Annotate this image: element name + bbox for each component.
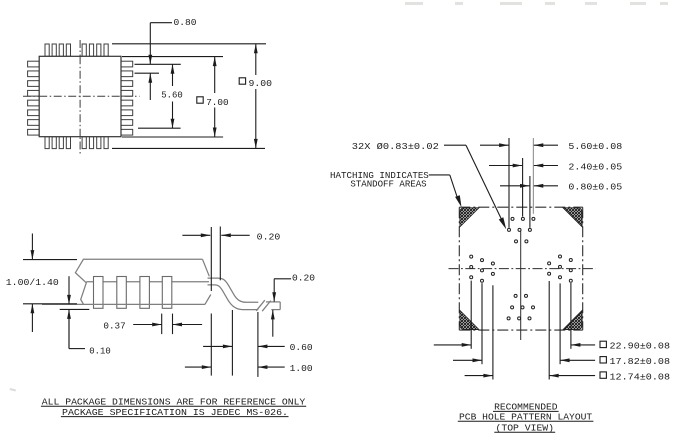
dimension 0.80 (pin pitch) (148, 17, 196, 100)
svg-text:0.10: 0.10 (89, 345, 111, 356)
dimension 9.00 (239, 44, 272, 149)
left/right pin rows (28, 61, 40, 67)
side view body outline (75, 259, 202, 304)
svg-text:0.60: 0.60 (290, 342, 313, 353)
svg-text:17.82±0.08: 17.82±0.08 (610, 356, 671, 367)
dimension square 17.82±0.08 (453, 356, 670, 367)
svg-text:5.60±0.08: 5.60±0.08 (568, 141, 622, 152)
callout 32X hole diameter (352, 141, 506, 229)
corner standoff pads (460, 208, 582, 330)
dimension 0.20 (lead thickness at bend) (182, 227, 280, 292)
top view horizontal centerline (23, 95, 140, 97)
dimension 0.60 (203, 342, 313, 353)
vertical centerline (520, 231, 522, 341)
svg-text:STANDOFF AREAS: STANDOFF AREAS (350, 179, 426, 190)
top view vertical centerline (79, 40, 81, 155)
side view of package (42, 259, 280, 311)
dimension 0.37 (lead width) (103, 314, 202, 335)
dimension 1.00/1.40 (body height) (6, 234, 77, 333)
through-holes (32X) (470, 217, 573, 320)
note text (41, 397, 306, 418)
svg-text:0.20: 0.20 (257, 231, 281, 242)
svg-text:1.00: 1.00 (290, 363, 313, 374)
dimension 5.60±0.08 (480, 141, 622, 152)
dimension 0.80±0.05 (500, 182, 622, 193)
extension lines below side view (210, 314, 212, 376)
package body outline (39, 56, 121, 136)
gull-wing lead (208, 278, 259, 302)
package outline (phantom square) (459, 207, 582, 330)
lead foot break slashes (256, 300, 265, 311)
dimension 5.60 (161, 64, 183, 128)
svg-text:0.20: 0.20 (292, 273, 315, 284)
svg-text:1.00/1.40: 1.00/1.40 (6, 277, 59, 288)
body right chamfers (203, 259, 210, 276)
dimension 0.10 (standoff) (60, 276, 111, 356)
svg-text:0.80±0.05: 0.80±0.05 (568, 182, 622, 193)
lead foot end (266, 301, 280, 303)
body bottom edge (42, 303, 205, 305)
svg-text:5.60: 5.60 (161, 90, 183, 101)
callout hatching/standoff note (330, 170, 462, 207)
svg-text:12.74±0.08: 12.74±0.08 (610, 371, 671, 382)
svg-text:2.40±0.05: 2.40±0.05 (568, 161, 622, 172)
dimension square 22.90±0.08 (434, 341, 670, 352)
horizontal centerline (449, 268, 596, 270)
svg-text:32X Ø0.83±0.02: 32X Ø0.83±0.02 (352, 141, 439, 152)
svg-text:7.00: 7.00 (206, 97, 229, 108)
dimension square 12.74±0.08 (465, 371, 671, 382)
hole-column extension lines (top) (508, 138, 510, 228)
dimension 7.00 (197, 57, 229, 137)
svg-text:22.90±0.08: 22.90±0.08 (610, 341, 671, 352)
QFP package top view (23, 40, 140, 155)
svg-text:0.80: 0.80 (174, 17, 197, 28)
top/bottom pin rows (45, 44, 49, 56)
dimension 2.40±0.05 (489, 161, 622, 172)
extension lines right of top view (112, 43, 266, 45)
svg-text:9.00: 9.00 (249, 78, 273, 89)
hole-column extension lines (bottom) (470, 281, 472, 349)
dimension 0.20 (foot thickness) (271, 273, 315, 337)
lead shoulder line (86, 281, 209, 283)
svg-text:0.37: 0.37 (103, 320, 125, 331)
lead cross-sections (94, 277, 104, 309)
dimension 1.00 (185, 363, 313, 374)
PCB layout caption (458, 402, 594, 434)
